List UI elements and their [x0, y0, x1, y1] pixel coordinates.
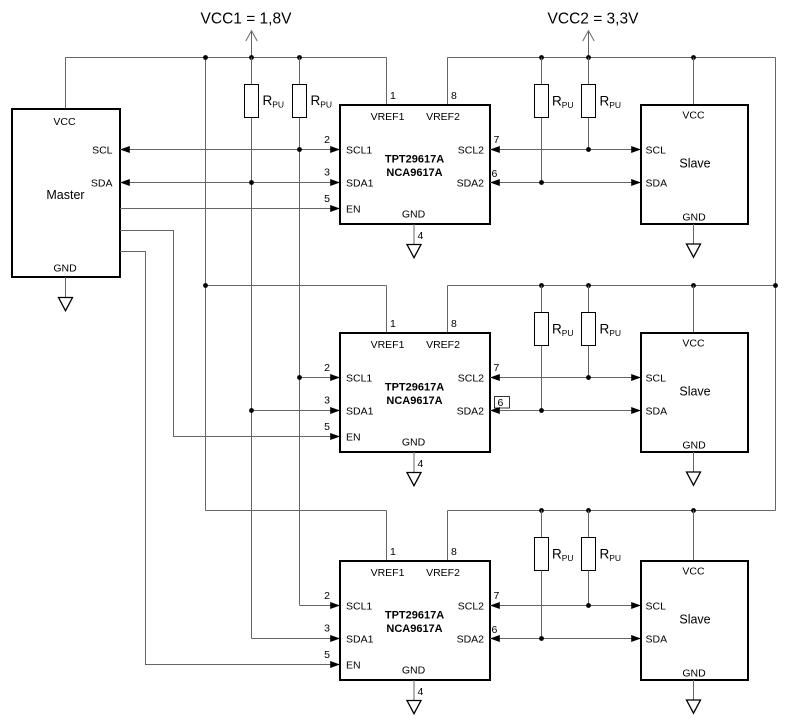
pull-up resistor RPU (SCL2) section 2 — [582, 313, 622, 346]
wire U3 pin 1 VREF1 riser — [386, 511, 388, 562]
wire U1 pin 8 VREF2 riser — [447, 58, 449, 106]
wire slave3 VCC riser — [693, 511, 695, 562]
wire SDA1 tap U2 — [252, 407, 341, 414]
slave2 pin label SCL — [646, 373, 667, 385]
wire SCL master-U1 — [120, 146, 340, 153]
wire RPU SCL2 lower stub section 1 — [588, 118, 590, 150]
wire SCL1 tap U2 — [300, 374, 341, 381]
wire U1 pin 1 VREF1 riser — [386, 58, 388, 106]
junction VCC1 bus / rail — [203, 55, 208, 60]
wire slave3 GND stub — [693, 680, 695, 700]
U3 pin number 5 — [324, 649, 330, 661]
svg-text:8: 8 — [451, 90, 457, 102]
svg-text:2: 2 — [324, 134, 330, 146]
wire SCL2 U2-slave2 — [490, 374, 641, 381]
power symbol VCC1 arrow — [246, 31, 257, 58]
U1 pin label SCL1 — [346, 145, 372, 157]
junction VCC2 bus / slave1 VCC — [691, 55, 696, 60]
junction SCL wire / SCL rail — [297, 147, 302, 152]
wire U3 pin 8 VREF2 riser — [447, 511, 449, 562]
svg-text:TPT29617A: TPT29617A — [385, 610, 444, 622]
U1 pin number 3 — [324, 167, 330, 179]
U3 pin number 4 — [418, 686, 424, 698]
wire VCC1 top bus — [66, 57, 387, 59]
U3 pin number 7 — [494, 590, 500, 602]
wire SDA rail vertical — [251, 118, 253, 639]
svg-text:Slave: Slave — [679, 613, 710, 627]
pull-up resistor RPU (SCL2) section 1 — [582, 85, 622, 118]
junction VCC2 branch / RPU SDA2 section 2 — [539, 283, 544, 288]
slave3 pin label SDA — [646, 634, 668, 646]
wire RPU SDA2 lower stub section 2 — [541, 346, 543, 411]
svg-text:SCL: SCL — [646, 145, 667, 157]
svg-text:SDA1: SDA1 — [346, 406, 374, 418]
junction SDA wire / SDA rail — [249, 180, 254, 185]
junction SDA2 / pull-up section 3 — [539, 636, 544, 641]
U1 pin number 7 — [494, 134, 500, 146]
wire VCC1 branch bus section 2 — [206, 285, 387, 287]
slave3 name label — [679, 613, 710, 627]
svg-text:NCA9617A: NCA9617A — [386, 623, 442, 635]
slave2 pin label SDA — [646, 406, 668, 418]
svg-text:3: 3 — [324, 167, 330, 179]
slave1 pin label SCL — [646, 145, 667, 157]
net label VCC1 = 1,8V — [201, 11, 293, 28]
U2 pin number 2 — [324, 362, 330, 374]
svg-text:SCL2: SCL2 — [458, 145, 484, 157]
svg-text:1: 1 — [390, 546, 396, 558]
U1 pin number 8 — [451, 90, 457, 102]
wire EN master-U3 — [120, 252, 340, 669]
svg-text:2: 2 — [324, 362, 330, 374]
ground slave1 — [687, 244, 701, 257]
U1 pin number 6 — [492, 168, 498, 180]
svg-text:SCL1: SCL1 — [346, 373, 372, 385]
junction SCL2 / pull-up section 1 — [586, 147, 591, 152]
svg-text:4: 4 — [418, 230, 424, 242]
svg-text:SCL: SCL — [92, 145, 113, 157]
junction VCC2 rail / branch 2 — [773, 283, 778, 288]
svg-text:SDA: SDA — [646, 634, 668, 646]
svg-text:VREF2: VREF2 — [426, 567, 460, 579]
svg-text:GND: GND — [53, 263, 77, 275]
wire master GND stub — [65, 277, 67, 298]
svg-text:7: 7 — [494, 134, 500, 146]
wire U2 pin 8 VREF2 riser — [447, 286, 449, 334]
svg-text:EN: EN — [346, 204, 361, 216]
svg-text:6: 6 — [492, 168, 498, 180]
svg-text:SCL2: SCL2 — [458, 373, 484, 385]
U1 part number TPT29617A — [385, 154, 444, 166]
wire slave1 GND stub — [693, 224, 695, 244]
power symbol VCC2 arrow — [583, 31, 594, 58]
master pin label SCL — [92, 145, 113, 157]
svg-text:SDA: SDA — [91, 178, 113, 190]
svg-text:6: 6 — [492, 624, 498, 636]
slave1 pin label GND — [682, 212, 706, 224]
svg-text:VREF2: VREF2 — [426, 111, 460, 123]
U1 part number NCA9617A — [386, 167, 442, 179]
U3 pin label VREF2 — [426, 567, 460, 579]
slave1 name label — [679, 157, 710, 171]
wire slave2 GND stub — [693, 452, 695, 472]
svg-text:GND: GND — [402, 665, 426, 677]
svg-text:2: 2 — [324, 590, 330, 602]
U1 pin label SDA2 — [457, 178, 485, 190]
wire VCC1 rail vertical — [205, 58, 207, 511]
svg-text:3: 3 — [324, 623, 330, 635]
junction VCC2 branch / RPU SCL2 section 3 — [586, 508, 591, 513]
U2 part number NCA9617A — [386, 395, 442, 407]
junction SCL2 / pull-up section 2 — [586, 375, 591, 380]
wire RPU SCL2 upper stub section 1 — [588, 58, 590, 85]
U3 pin label SDA2 — [457, 634, 485, 646]
svg-text:GND: GND — [402, 437, 426, 449]
ground U3 — [407, 701, 421, 714]
svg-text:GND: GND — [682, 212, 706, 224]
slave1 pin label VCC — [682, 110, 705, 122]
svg-text:5: 5 — [324, 649, 330, 661]
junction VCC1 bus / SDA pull-up — [249, 55, 254, 60]
wire SCL rail upper stub — [299, 58, 301, 85]
wire VCC2 rail vertical — [775, 58, 777, 511]
junction SDA2 / pull-up section 2 — [539, 408, 544, 413]
wire SDA1 tap U3 — [252, 635, 341, 642]
svg-text:SCL1: SCL1 — [346, 601, 372, 613]
svg-text:EN: EN — [346, 432, 361, 444]
wire SDA master-U1 — [120, 179, 340, 186]
U1 pin label VREF1 — [371, 111, 405, 123]
svg-text:1: 1 — [390, 90, 396, 102]
U2 pin label EN — [346, 432, 361, 444]
wire U3 GND pin 4 stub — [413, 680, 415, 701]
junction SDA rail / U2 — [249, 408, 254, 413]
U3 part number NCA9617A — [386, 623, 442, 635]
U2 pin number 1 — [390, 318, 396, 330]
junction VCC2 branch / slave3 VCC — [691, 508, 696, 513]
svg-text:SCL: SCL — [646, 373, 667, 385]
wire VCC1 branch bus section 3 — [206, 510, 387, 512]
wire RPU SCL2 lower stub section 2 — [588, 346, 590, 378]
junction SCL2 / pull-up section 3 — [586, 603, 591, 608]
svg-text:VREF1: VREF1 — [371, 339, 405, 351]
U1 pin label VREF2 — [426, 111, 460, 123]
U2 pin label SDA1 — [346, 406, 374, 418]
svg-text:NCA9617A: NCA9617A — [386, 167, 442, 179]
U3 pin label SCL2 — [458, 601, 484, 613]
U2 pin number 7 — [494, 362, 500, 374]
svg-text:VCC: VCC — [682, 110, 705, 122]
wire slave2 VCC riser — [693, 286, 695, 334]
master pin label SDA — [91, 178, 113, 190]
slave3 pin label VCC — [682, 566, 705, 578]
svg-text:1: 1 — [390, 318, 396, 330]
U3 pin number 6 — [492, 624, 498, 636]
ground slave2 — [687, 472, 701, 485]
svg-text:Master: Master — [46, 188, 84, 202]
ground U2 — [407, 473, 421, 486]
ground slave3 — [687, 700, 701, 713]
U3 pin number 8 — [451, 546, 457, 558]
junction VCC2 bus / RPU SCL2 — [586, 55, 591, 60]
U2 part number TPT29617A — [385, 382, 444, 394]
level shifter U1 box — [340, 105, 490, 224]
svg-text:Slave: Slave — [679, 385, 710, 399]
pull-up resistor RPU (SDA2) section 1 — [535, 85, 574, 118]
U2 pin number 3 — [324, 395, 330, 407]
junction SCL rail / U2 — [297, 375, 302, 380]
svg-text:SCL: SCL — [646, 601, 667, 613]
svg-text:7: 7 — [494, 362, 500, 374]
svg-text:VREF2: VREF2 — [426, 339, 460, 351]
svg-text:VREF1: VREF1 — [371, 567, 405, 579]
svg-text:SDA2: SDA2 — [457, 634, 485, 646]
wire U2 GND pin 4 stub — [413, 452, 415, 473]
net label VCC2 = 3,3V — [548, 11, 640, 28]
wire slave1 VCC riser — [693, 58, 695, 106]
U2 pin label SCL2 — [458, 373, 484, 385]
wire RPU SDA2 upper stub section 2 — [541, 286, 543, 313]
U2 pin number 4 — [418, 458, 424, 470]
svg-text:SDA2: SDA2 — [457, 178, 485, 190]
master name label — [46, 188, 84, 202]
junction VCC1 rail / branch 2 — [203, 283, 208, 288]
svg-text:7: 7 — [494, 590, 500, 602]
slave3 pin label SCL — [646, 601, 667, 613]
wire RPU SCL2 lower stub section 3 — [588, 571, 590, 606]
wire RPU SDA2 upper stub section 1 — [541, 58, 543, 85]
junction SDA2 / pull-up section 1 — [539, 180, 544, 185]
svg-text:VCC: VCC — [682, 566, 705, 578]
svg-text:5: 5 — [324, 193, 330, 205]
slave3 block — [641, 561, 748, 680]
U3 pin label EN — [346, 660, 361, 672]
slave1 block — [641, 105, 748, 224]
wire SCL2 U3-slave3 — [490, 602, 641, 609]
junction VCC2 branch / RPU SCL2 section 2 — [586, 283, 591, 288]
svg-text:4: 4 — [418, 458, 424, 470]
U3 pin label GND — [402, 665, 426, 677]
master block — [12, 109, 120, 277]
svg-text:6: 6 — [498, 397, 504, 409]
svg-text:Slave: Slave — [679, 157, 710, 171]
svg-text:SCL2: SCL2 — [458, 601, 484, 613]
svg-text:8: 8 — [451, 318, 457, 330]
U3 pin label VREF1 — [371, 567, 405, 579]
U2 pin label VREF2 — [426, 339, 460, 351]
slave3 pin label GND — [682, 668, 706, 680]
U2 pin label VREF1 — [371, 339, 405, 351]
U2 pin label SDA2 — [457, 406, 485, 418]
wire RPU SDA2 lower stub section 1 — [541, 118, 543, 183]
junction VCC1 bus / SCL pull-up — [297, 55, 302, 60]
svg-text:SDA1: SDA1 — [346, 178, 374, 190]
U1 pin label SDA1 — [346, 178, 374, 190]
U2 pin number 6 (boxed) — [495, 397, 510, 410]
svg-text:SDA: SDA — [646, 406, 668, 418]
master pin label VCC — [53, 116, 76, 128]
pull-up resistor RPU (SCL, VCC1) — [293, 85, 333, 118]
wire EN master-U1 — [120, 205, 340, 212]
wire SDA2 U1-slave1 — [490, 179, 641, 186]
slave2 pin label VCC — [682, 338, 705, 350]
U2 pin label SCL1 — [346, 373, 372, 385]
U1 pin label EN — [346, 204, 361, 216]
pull-up resistor RPU (SDA2) section 3 — [535, 538, 574, 571]
svg-text:NCA9617A: NCA9617A — [386, 395, 442, 407]
wire SCL1 tap U3 — [300, 602, 341, 609]
svg-text:SDA: SDA — [646, 178, 668, 190]
slave2 name label — [679, 385, 710, 399]
svg-text:TPT29617A: TPT29617A — [385, 382, 444, 394]
svg-text:SDA2: SDA2 — [457, 406, 485, 418]
U3 pin number 3 — [324, 623, 330, 635]
wire SDA2 U2-slave2 — [490, 407, 641, 414]
wire VCC2 branch bus section 2 — [448, 285, 776, 287]
U3 part number TPT29617A — [385, 610, 444, 622]
wire U2 pin 1 VREF1 riser — [386, 286, 388, 334]
ground U1 — [407, 245, 421, 258]
U3 pin number 2 — [324, 590, 330, 602]
svg-text:VREF1: VREF1 — [371, 111, 405, 123]
master pin label GND — [53, 263, 77, 275]
ground master — [59, 298, 73, 311]
wire SDA2 U3-slave3 — [490, 635, 641, 642]
slave2 block — [641, 333, 748, 452]
svg-text:5: 5 — [324, 421, 330, 433]
U1 pin number 4 — [418, 230, 424, 242]
wire VCC2 branch bus section 3 — [448, 510, 776, 512]
wire RPU SDA2 lower stub section 3 — [541, 571, 543, 639]
wire RPU SCL2 upper stub section 3 — [588, 511, 590, 538]
level shifter U3 box — [340, 561, 490, 680]
wire RPU SCL2 upper stub section 2 — [588, 286, 590, 313]
wire SDA rail upper stub — [251, 58, 253, 85]
pull-up resistor RPU (SCL2) section 3 — [582, 538, 622, 571]
svg-text:VCC1 = 1,8V: VCC1 = 1,8V — [201, 11, 293, 28]
svg-text:4: 4 — [418, 686, 424, 698]
svg-text:EN: EN — [346, 660, 361, 672]
U2 pin number 8 — [451, 318, 457, 330]
wire U1 GND pin 4 stub — [413, 224, 415, 245]
junction VCC2 branch / slave2 VCC — [691, 283, 696, 288]
U1 pin label GND — [402, 209, 426, 221]
pull-up resistor RPU (SDA, VCC1) — [245, 85, 285, 118]
U1 pin number 2 — [324, 134, 330, 146]
svg-text:VCC2 = 3,3V: VCC2 = 3,3V — [548, 11, 640, 28]
wire SCL2 U1-slave1 — [490, 146, 641, 153]
svg-text:VCC: VCC — [682, 338, 705, 350]
svg-text:GND: GND — [682, 668, 706, 680]
svg-text:VCC: VCC — [53, 116, 76, 128]
svg-text:GND: GND — [682, 440, 706, 452]
wire SCL rail vertical — [299, 118, 301, 606]
wire EN master-U2 — [120, 231, 340, 441]
svg-text:SCL1: SCL1 — [346, 145, 372, 157]
slave1 pin label SDA — [646, 178, 668, 190]
svg-text:TPT29617A: TPT29617A — [385, 154, 444, 166]
wire VCC2 top bus — [448, 57, 776, 59]
junction VCC2 branch / RPU SDA2 section 3 — [539, 508, 544, 513]
wire master VCC riser — [65, 58, 67, 110]
pull-up resistor RPU (SDA2) section 2 — [535, 313, 574, 346]
wire RPU SDA2 upper stub section 3 — [541, 511, 543, 538]
U1 pin label SCL2 — [458, 145, 484, 157]
U1 pin number 5 — [324, 193, 330, 205]
svg-text:GND: GND — [402, 209, 426, 221]
U3 pin label SCL1 — [346, 601, 372, 613]
U2 pin label GND — [402, 437, 426, 449]
U3 pin number 1 — [390, 546, 396, 558]
junction VCC2 bus / RPU SDA2 — [539, 55, 544, 60]
U3 pin label SDA1 — [346, 634, 374, 646]
level shifter U2 box — [340, 333, 490, 452]
svg-text:SDA1: SDA1 — [346, 634, 374, 646]
svg-text:3: 3 — [324, 395, 330, 407]
U2 pin number 5 — [324, 421, 330, 433]
U1 pin number 1 — [390, 90, 396, 102]
slave2 pin label GND — [682, 440, 706, 452]
svg-text:8: 8 — [451, 546, 457, 558]
